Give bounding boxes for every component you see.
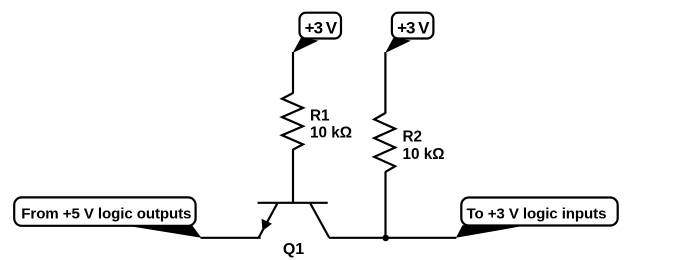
wire right (collector to To-callout): [329, 237, 457, 239]
callout tail to node V1: [293, 38, 319, 53]
Q1 emitter diagonal with arrow: [259, 204, 277, 238]
label R1 value 10 kΩ: [310, 107, 352, 141]
resistor R1: [282, 93, 303, 150]
junction node dot: [382, 235, 389, 242]
wire from +3V to R1 top: [292, 52, 294, 94]
svg-text:To +3 V logic inputs: To +3 V logic inputs: [467, 206, 607, 223]
svg-text:+3 V: +3 V: [397, 18, 430, 37]
right callout tail: [456, 225, 520, 238]
svg-text:+3 V: +3 V: [305, 18, 338, 37]
wire left (emitter to From-callout): [201, 237, 261, 239]
Q1 collector diagonal: [310, 204, 329, 238]
wire R1 bottom to Q1 base: [292, 149, 294, 204]
wire from +3V to R2 top: [384, 52, 386, 114]
annotation callout: From +5 V logic outputs: [14, 197, 195, 225]
svg-text:10 kΩ: 10 kΩ: [310, 124, 352, 141]
svg-text:R2: R2: [403, 128, 423, 145]
annotation callout: To +3 V logic inputs: [461, 198, 617, 226]
resistor R2: [374, 113, 395, 172]
svg-text:From +5 V logic outputs: From +5 V logic outputs: [21, 206, 191, 223]
svg-text:10 kΩ: 10 kΩ: [403, 146, 445, 163]
power callout box +3 V (right, net V2): [392, 13, 434, 39]
svg-text:R1: R1: [310, 107, 330, 124]
transistor Q1 base bar: [258, 202, 328, 204]
label R2 value 10 kΩ: [403, 128, 445, 163]
wire R2 bottom to junction: [384, 172, 386, 238]
left callout tail: [122, 225, 201, 238]
callout tail to node V2: [385, 38, 411, 53]
svg-text:Q1: Q1: [283, 241, 304, 258]
power callout box +3 V (left, net V1): [300, 13, 342, 39]
